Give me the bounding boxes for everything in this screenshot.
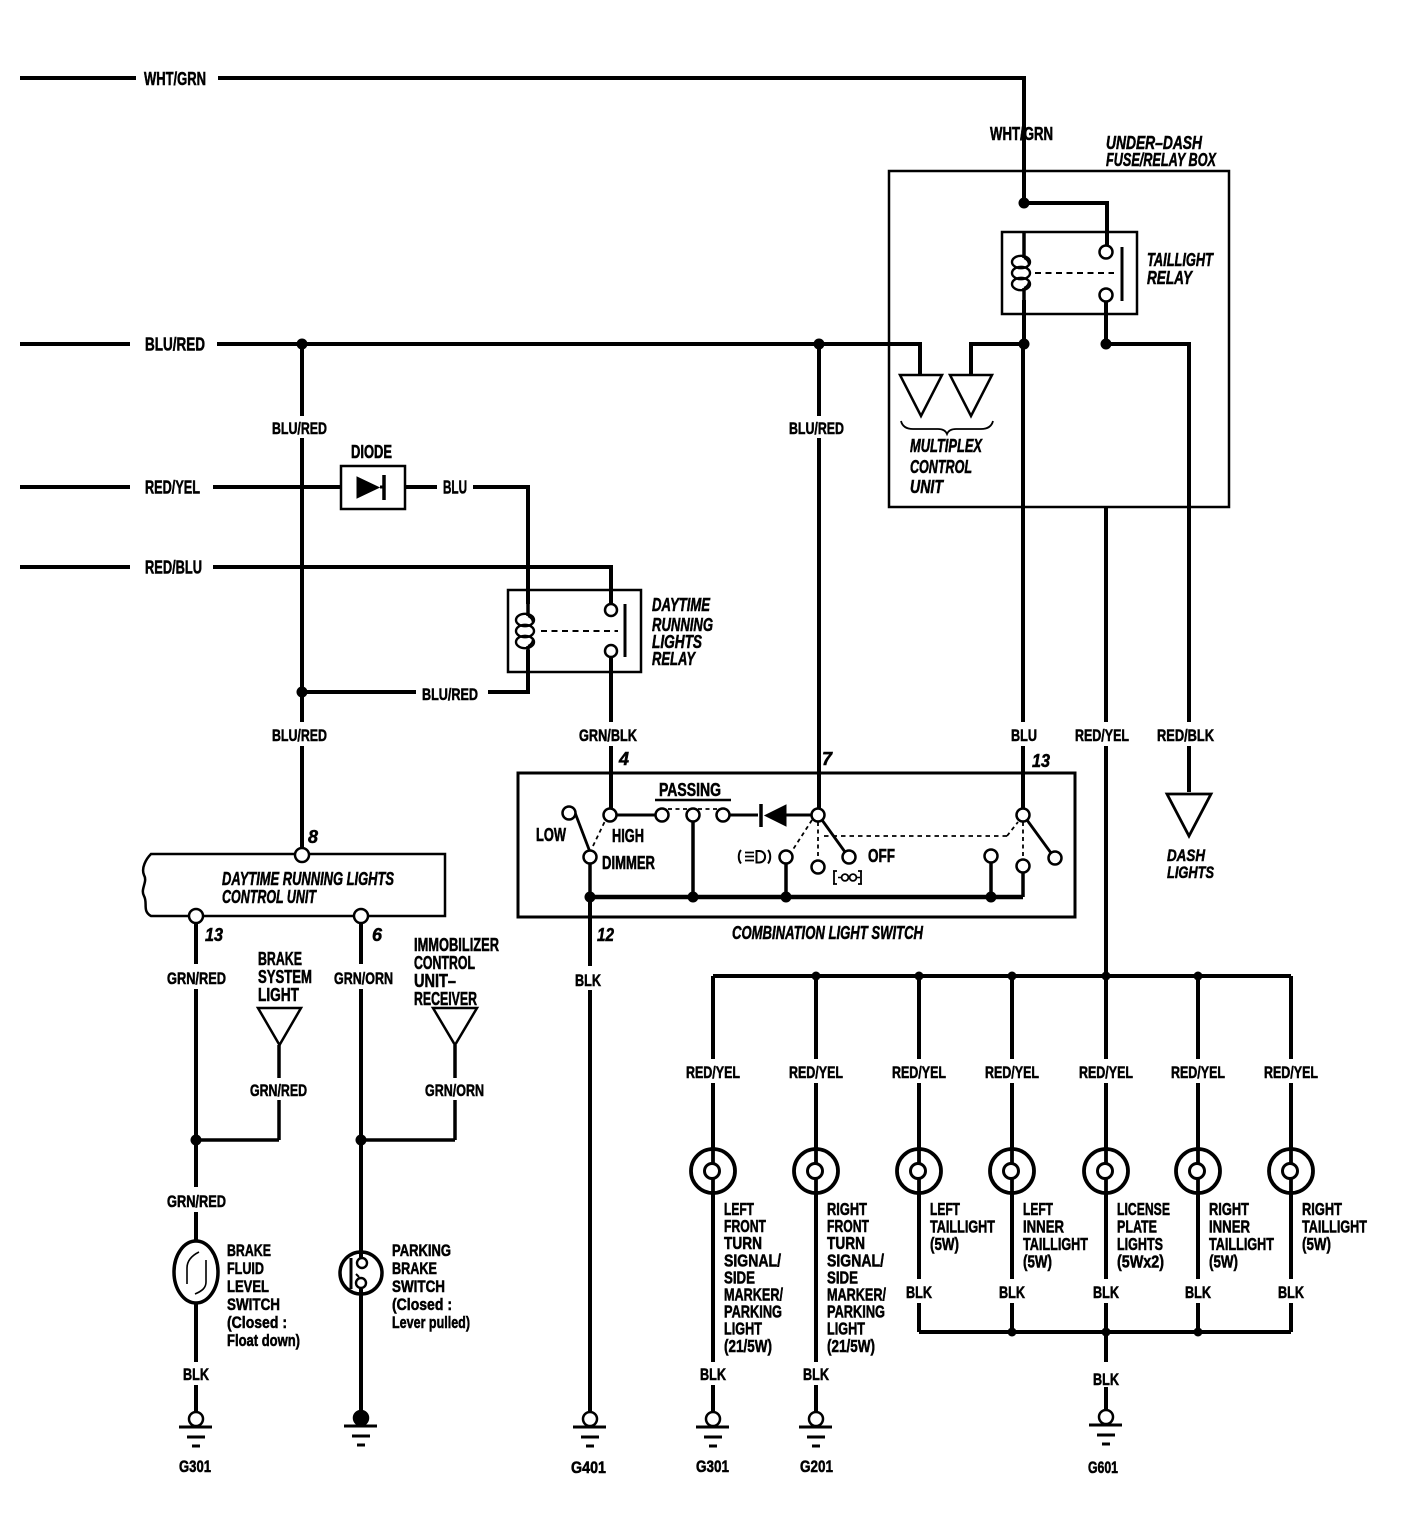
wire HIGH to passing (616, 814, 656, 817)
svg-text:RED/YEL: RED/YEL (145, 478, 200, 498)
svg-text:BRAKE: BRAKE (258, 949, 302, 969)
node ground bus 3 (1194, 1328, 1203, 1337)
svg-text:BLK: BLK (1093, 1370, 1120, 1389)
wire GRN/RED pin13 (194, 923, 198, 1241)
wire brake system light branch (196, 1045, 279, 1140)
wire immobilizer branch (361, 1045, 455, 1140)
wire BLK to G601 (1104, 1332, 1108, 1410)
svg-text:4: 4 (618, 749, 629, 769)
node ground bus 2 (1102, 1328, 1111, 1337)
svg-text:RED/YEL: RED/YEL (1075, 726, 1129, 745)
wire BLK col2 (814, 1192, 818, 1412)
wire passing to diode (729, 814, 758, 817)
wire multiplex branch 2 (971, 344, 1024, 375)
svg-text:RECEIVER: RECEIVER (414, 989, 477, 1009)
ground G401 (583, 1412, 597, 1426)
svg-text:SWITCH: SWITCH (227, 1295, 280, 1314)
multiplex control unit triangle 1 (900, 375, 942, 416)
svg-text:BLU/RED: BLU/RED (422, 685, 478, 704)
node bus 1 (812, 972, 821, 981)
wire RED/YEL drop col1 (711, 976, 715, 1150)
taillight relay contact top (1100, 246, 1113, 259)
wire BLU/RED drop x819 to pin7 (817, 344, 821, 809)
wire BLK pin12 to G401 (588, 897, 592, 1412)
wire BLK col5 (1104, 1192, 1108, 1332)
switch lever LOW-DIMMER (574, 810, 590, 852)
wire RED/YEL feed (20, 485, 130, 489)
wire BLK to G301 (194, 1303, 198, 1412)
license plate lights bulb (1084, 1149, 1128, 1193)
svg-text:CONTROL: CONTROL (414, 953, 475, 973)
brake fluid level switch (174, 1241, 218, 1303)
contact pin7 (812, 809, 825, 822)
svg-text:MULTIPLEX: MULTIPLEX (910, 436, 983, 456)
svg-text:TAILLIGHT: TAILLIGHT (1147, 250, 1214, 270)
wire BLK col1 (711, 1192, 715, 1412)
svg-text:RED/BLU: RED/BLU (145, 558, 202, 578)
svg-text:BLU/RED: BLU/RED (272, 419, 327, 438)
svg-text:BLK: BLK (999, 1283, 1026, 1302)
wire junction to RED/BLK drop (1106, 344, 1189, 792)
svg-text:DIMMER: DIMMER (602, 853, 655, 873)
svg-text:OFF: OFF (868, 846, 895, 866)
svg-text:IMMOBILIZER: IMMOBILIZER (414, 935, 499, 955)
node bus 3 (1008, 972, 1017, 981)
svg-text:(5Wx2): (5Wx2) (1117, 1252, 1164, 1272)
wire GRN/BLK pin4 (609, 657, 613, 809)
contact pin13 (1017, 809, 1030, 822)
svg-text:HIGH: HIGH (612, 826, 644, 846)
wire RED/YEL to diode (213, 485, 341, 489)
svg-text:BLU/RED: BLU/RED (789, 419, 844, 438)
svg-text:Float down): Float down) (227, 1331, 300, 1350)
node bus 5 (1194, 972, 1203, 981)
node bus passing (688, 892, 699, 903)
svg-text:CONTROL: CONTROL (910, 457, 972, 477)
svg-text:LIGHTS: LIGHTS (1167, 863, 1214, 882)
wire BLU to DRL relay (473, 487, 528, 604)
passing contact 2 (687, 809, 700, 822)
svg-text:13: 13 (205, 925, 223, 945)
node bus dimmer (585, 892, 596, 903)
immobilizer triangle (433, 1008, 477, 1045)
dashed pin7 to headlight contact (792, 820, 812, 851)
wire parking brake to ground (359, 1289, 363, 1412)
diode D1 symbol (357, 477, 379, 498)
daytime running lights relay box (508, 590, 641, 672)
svg-text:G301: G301 (179, 1457, 211, 1476)
svg-text:6: 6 (372, 925, 383, 945)
svg-text:GRN/ORN: GRN/ORN (334, 969, 393, 988)
wire BLU/RED drop x302 (300, 344, 304, 849)
switch lever pin13 (1027, 820, 1051, 853)
wire to relay contact (1024, 203, 1107, 246)
svg-text:RED/YEL: RED/YEL (892, 1063, 946, 1082)
svg-text:LEVEL: LEVEL (227, 1277, 269, 1296)
svg-text:RED/YEL: RED/YEL (789, 1063, 843, 1082)
wire RED/YEL drop col2 (814, 976, 818, 1150)
svg-text:DAYTIME: DAYTIME (652, 595, 711, 615)
passing contact 3 (717, 809, 730, 822)
svg-text:COMBINATION LIGHT SWITCH: COMBINATION LIGHT SWITCH (732, 923, 924, 943)
contact headlight (780, 851, 793, 864)
wire RED/YEL drop col3 (917, 976, 921, 1150)
multiplex brace (901, 421, 993, 434)
daytime running lights control unit box (143, 854, 445, 916)
node bus 2 (915, 972, 924, 981)
dashed OFF row to right switch (824, 835, 1007, 837)
contact right tail (985, 850, 998, 863)
diode D2 triangle (765, 805, 786, 826)
wire BLU pin13 (1021, 344, 1025, 809)
contact right mid (1017, 860, 1030, 873)
dashed DIMMER-HIGH (593, 821, 605, 846)
right inner taillight bulb (1176, 1149, 1220, 1193)
ground G301 left (189, 1412, 203, 1426)
terminal pin 13 DRL (189, 909, 203, 923)
node bus 4 (1102, 972, 1111, 981)
svg-text:GRN/BLK: GRN/BLK (579, 726, 638, 745)
svg-text:G201: G201 (800, 1457, 833, 1476)
left inner taillight bulb (990, 1149, 1034, 1193)
brake system light triangle (258, 1008, 301, 1045)
node contact junction (1101, 339, 1112, 350)
ground parking brake (354, 1411, 368, 1425)
svg-text:BLU: BLU (1011, 726, 1037, 745)
svg-text:LIGHT: LIGHT (258, 985, 299, 1005)
wire BLK col6 (1196, 1192, 1200, 1332)
svg-text:RED/YEL: RED/YEL (1171, 1063, 1225, 1082)
svg-text:BRAKE: BRAKE (392, 1259, 437, 1278)
node BLU/RED lower junction (297, 687, 308, 698)
taillight relay U1 box (1002, 232, 1137, 314)
svg-text:BLK: BLK (1185, 1283, 1212, 1302)
svg-text:(21/5W): (21/5W) (827, 1336, 875, 1356)
DRL relay contact bar (624, 604, 627, 657)
svg-text:DIODE: DIODE (351, 442, 392, 462)
wire coil to BLU/RED node (1022, 300, 1026, 344)
wire RED/BLU to DRL relay (213, 567, 611, 603)
svg-text:G601: G601 (1088, 1458, 1118, 1477)
svg-text:DAYTIME RUNNING LIGHTS: DAYTIME RUNNING LIGHTS (222, 869, 394, 889)
taillight ground bus (919, 1330, 1291, 1334)
wire BLU/RED main (217, 344, 920, 375)
svg-text:G401: G401 (571, 1458, 606, 1477)
wire right mid contact to bus (1021, 872, 1025, 897)
svg-text:GRN/RED: GRN/RED (167, 969, 226, 988)
wire DIMMER to bus (588, 863, 592, 897)
svg-text:8: 8 (308, 827, 318, 847)
terminal pin 6 DRL (354, 909, 368, 923)
svg-text:BLK: BLK (575, 971, 602, 990)
node bus right (986, 892, 997, 903)
wire RED/BLU feed (20, 565, 130, 569)
parking brake switch (340, 1252, 382, 1294)
dashed passing link (668, 808, 720, 810)
wire RED/YEL drop col4 (1010, 976, 1014, 1150)
right taillight bulb (1269, 1149, 1313, 1193)
wire BLU/RED feed (20, 342, 130, 346)
wire passing2 to bus (691, 821, 695, 897)
svg-text:CONTROL UNIT: CONTROL UNIT (222, 887, 317, 907)
svg-text:SYSTEM: SYSTEM (258, 967, 312, 987)
node ground bus 1 (1008, 1328, 1017, 1337)
svg-text:Lever pulled): Lever pulled) (392, 1313, 470, 1332)
svg-text:BLU: BLU (443, 478, 467, 498)
node BLU/RED at x819 (814, 339, 825, 350)
DRL relay contact bottom (605, 645, 617, 657)
DRL relay dashed link (541, 630, 618, 632)
svg-text:BLK: BLK (1278, 1283, 1305, 1302)
svg-text:RED/YEL: RED/YEL (985, 1063, 1039, 1082)
svg-text:G301: G301 (696, 1457, 729, 1476)
headlight icon (739, 850, 741, 864)
wire contact to RED/YEL node (1104, 301, 1108, 344)
wire right tail contact to bus (989, 862, 993, 897)
svg-text:(Closed :: (Closed : (392, 1295, 452, 1314)
combination light switch box (518, 773, 1075, 917)
switch lever pin7-OFF (822, 820, 845, 852)
svg-text:FUSE/RELAY BOX: FUSE/RELAY BOX (1106, 150, 1217, 170)
svg-text:BLK: BLK (700, 1365, 727, 1384)
wire BLK col4 (1010, 1192, 1014, 1332)
ground G601 (1099, 1410, 1113, 1424)
wire RED/YEL drop col7 (1289, 976, 1293, 1150)
svg-text:RED/YEL: RED/YEL (1079, 1063, 1133, 1082)
under-dash fuse/relay box (889, 171, 1229, 507)
taillight relay contact bar (1121, 247, 1124, 301)
ground col2 (809, 1412, 823, 1426)
svg-text:RED/YEL: RED/YEL (1264, 1063, 1318, 1082)
node GRN/ORN junction (356, 1135, 367, 1146)
contact OFF (843, 851, 856, 864)
contact HIGH (604, 809, 617, 822)
right front turn signal bulb (794, 1149, 838, 1193)
ground col1 (706, 1412, 720, 1426)
svg-text:(5W): (5W) (1209, 1252, 1238, 1272)
svg-text:BLK: BLK (906, 1283, 933, 1302)
diode D2 bar (759, 804, 763, 827)
taillight relay dashed link (1035, 272, 1114, 274)
wire WHT/GRN to fuse box (218, 78, 1024, 203)
taillight relay contact bottom (1100, 289, 1113, 302)
wire RED/YEL center feed (1104, 507, 1108, 976)
svg-text:GRN/RED: GRN/RED (167, 1192, 226, 1211)
svg-text:BLU/RED: BLU/RED (272, 726, 327, 745)
contact DIMMER (584, 851, 597, 864)
svg-text:WHT/GRN: WHT/GRN (990, 124, 1053, 144)
svg-text:GRN/ORN: GRN/ORN (425, 1081, 484, 1100)
taillight supply bus (713, 974, 1291, 978)
svg-text:FLUID: FLUID (227, 1259, 264, 1278)
svg-text:7: 7 (822, 749, 833, 769)
multiplex control unit triangle 2 (950, 375, 992, 416)
wire RED/YEL drop col6 (1196, 976, 1200, 1150)
left taillight bulb (897, 1149, 941, 1193)
node GRN/RED junction (191, 1135, 202, 1146)
wire diode to BLU (405, 485, 437, 489)
wire BLK col7 (1289, 1192, 1293, 1332)
svg-text:RELAY: RELAY (652, 649, 696, 669)
svg-text:(5W): (5W) (930, 1234, 959, 1254)
wire BLK col3 (917, 1192, 921, 1332)
node bus headlight (781, 892, 792, 903)
dash lights triangle (1167, 794, 1211, 836)
node BLU/RED at x302 (297, 339, 308, 350)
svg-text:PASSING: PASSING (659, 780, 721, 800)
DRL relay contact top (605, 604, 617, 616)
svg-text:BLK: BLK (1093, 1283, 1120, 1302)
contact LOW (563, 807, 576, 820)
dashed pin13 down (1022, 822, 1024, 859)
svg-text:UNIT: UNIT (910, 477, 945, 497)
terminal pin 8 (295, 848, 309, 862)
node coil-blu/red junction (1019, 339, 1030, 350)
wire GRN/ORN pin6 (359, 923, 363, 1258)
dashed pin7 down (817, 822, 819, 859)
svg-text:BLK: BLK (183, 1365, 210, 1384)
diode D1 box (341, 466, 405, 509)
svg-text:RED/YEL: RED/YEL (686, 1063, 740, 1082)
svg-text:SWITCH: SWITCH (392, 1277, 445, 1296)
taillight icon (833, 871, 837, 884)
svg-text:RELAY: RELAY (1147, 268, 1194, 288)
svg-text:(21/5W): (21/5W) (724, 1336, 772, 1356)
svg-text:GRN/RED: GRN/RED (250, 1081, 307, 1100)
svg-text:RED/BLK: RED/BLK (1157, 726, 1215, 745)
svg-text:12: 12 (597, 925, 614, 945)
wire RED/YEL drop col5 (1104, 976, 1108, 1150)
contact mid small (812, 861, 825, 874)
svg-text:(5W): (5W) (1023, 1252, 1052, 1272)
wire DRL coil to BLU/RED (302, 650, 528, 692)
switch ground bus (590, 895, 1023, 900)
svg-text:BRAKE: BRAKE (227, 1241, 271, 1260)
left front turn signal bulb (691, 1149, 735, 1193)
svg-text:WHT/GRN: WHT/GRN (144, 69, 206, 89)
wire headlight contact to bus (784, 863, 788, 897)
passing contact 1 (656, 809, 669, 822)
wire WHT/GRN feed (20, 76, 136, 80)
svg-text:LOW: LOW (536, 825, 566, 845)
node WHT/GRN junction in box (1019, 198, 1030, 209)
svg-text:BLK: BLK (803, 1365, 830, 1384)
svg-text:BLU/RED: BLU/RED (145, 335, 205, 355)
taillight relay coil (1012, 256, 1030, 268)
svg-text:UNIT–: UNIT– (414, 971, 456, 991)
svg-text:13: 13 (1032, 751, 1050, 771)
svg-text:(5W): (5W) (1302, 1234, 1331, 1254)
svg-text:PARKING: PARKING (392, 1241, 451, 1260)
wire diode to pin7 contact (786, 814, 812, 817)
DRL relay coil (516, 614, 534, 626)
svg-text:(Closed :: (Closed : (227, 1313, 287, 1332)
contact right lever end (1049, 852, 1062, 865)
